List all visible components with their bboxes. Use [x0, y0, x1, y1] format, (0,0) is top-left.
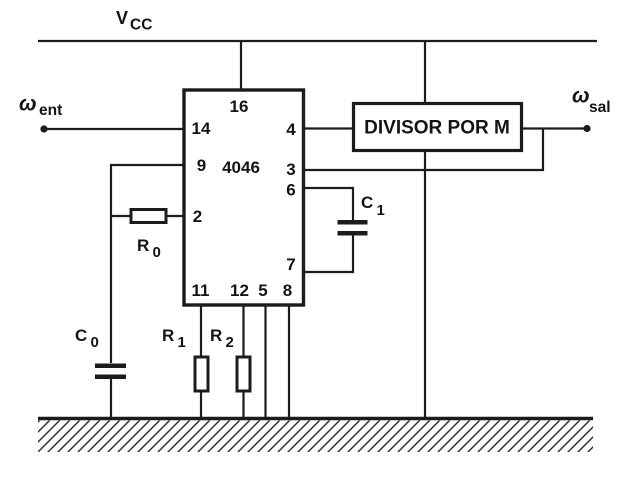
- wire pin 6 to C1: [305, 188, 353, 221]
- svg-text:4046: 4046: [222, 158, 260, 177]
- wire pin 11: [200, 305, 202, 418]
- block divisor por M: [354, 104, 522, 151]
- svg-text:ω: ω: [572, 85, 590, 108]
- svg-text:5: 5: [258, 281, 267, 300]
- svg-text:0: 0: [153, 244, 161, 261]
- wire input to pin 14: [44, 128, 184, 130]
- label C0: [75, 326, 99, 351]
- wire pin 5: [264, 305, 266, 418]
- svg-text:11: 11: [192, 281, 210, 300]
- label omega_sal: [572, 85, 611, 117]
- svg-text:R: R: [210, 326, 222, 345]
- wire pin 4 to divisor: [305, 127, 355, 129]
- svg-text:ω: ω: [19, 93, 37, 116]
- wire feedback pin 3: [305, 129, 543, 171]
- svg-text:0: 0: [91, 334, 99, 351]
- svg-text:14: 14: [192, 119, 211, 138]
- svg-text:1: 1: [377, 202, 385, 219]
- wire C1 to pin 7: [305, 236, 353, 273]
- label R2: [210, 326, 234, 351]
- svg-text:3: 3: [286, 160, 295, 179]
- wire pin 9: [111, 165, 184, 363]
- svg-text:CC: CC: [130, 17, 152, 34]
- svg-text:C: C: [75, 326, 87, 345]
- svg-text:8: 8: [283, 281, 292, 300]
- svg-text:12: 12: [230, 281, 249, 300]
- resistor R2: [237, 357, 250, 391]
- svg-text:1: 1: [178, 334, 186, 351]
- label R0: [137, 236, 161, 261]
- wire pin 12: [242, 305, 244, 418]
- wire Vcc to pin 16: [240, 41, 242, 90]
- svg-text:16: 16: [230, 97, 249, 116]
- svg-text:C: C: [361, 193, 373, 212]
- wire pin 8: [288, 305, 290, 418]
- svg-text:R: R: [137, 236, 149, 255]
- node output dot: [583, 125, 590, 132]
- label omega_ent: [19, 93, 62, 120]
- svg-text:4: 4: [286, 120, 296, 139]
- wire pin 2: [111, 215, 184, 217]
- label R1: [162, 326, 186, 351]
- wire Vcc to ground: [424, 41, 426, 418]
- resistor R1: [195, 357, 208, 391]
- svg-text:sal: sal: [589, 99, 611, 116]
- svg-text:2: 2: [226, 334, 234, 351]
- label C1: [361, 193, 385, 219]
- IC U1 4046: [184, 90, 304, 305]
- svg-text:V: V: [116, 8, 128, 28]
- svg-text:ent: ent: [39, 102, 62, 119]
- svg-text:9: 9: [197, 156, 206, 175]
- capacitor C1: [338, 220, 368, 236]
- capacitor C0: [95, 364, 126, 419]
- svg-text:2: 2: [193, 207, 202, 226]
- svg-text:7: 7: [286, 255, 295, 274]
- ground: [38, 417, 593, 420]
- wire divisor to output: [520, 127, 586, 129]
- svg-text:R: R: [162, 326, 174, 345]
- wire Vcc rail: [38, 40, 597, 42]
- svg-text:DIVISOR POR M: DIVISOR POR M: [364, 118, 510, 139]
- ground hatching: [38, 421, 593, 453]
- svg-text:6: 6: [286, 181, 295, 200]
- node input dot: [40, 125, 47, 132]
- resistor R0: [131, 210, 166, 223]
- label Vcc: [116, 8, 152, 34]
